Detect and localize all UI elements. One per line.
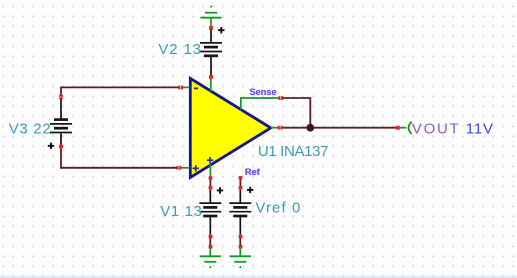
ground GND2 (under V1) bbox=[200, 248, 221, 268]
node: junction dot on output net bbox=[306, 124, 314, 132]
battery Vref (0V) bbox=[229, 187, 253, 235]
node: V3 top pin square bbox=[59, 95, 63, 97]
wire: sense net to output junction bbox=[283, 98, 311, 126]
wire: bottom supply pin to V1 bbox=[209, 180, 211, 187]
svg-text:V3 22: V3 22 bbox=[9, 120, 52, 137]
node: V1 top pin square bbox=[209, 186, 213, 189]
pin: top supply (green) bbox=[210, 79, 212, 92]
wire: V3 bottom to non-inverting input bbox=[61, 149, 177, 168]
node: V3 bottom pin square bbox=[59, 145, 63, 149]
node: opamp V- pin / battery pin square bbox=[209, 75, 213, 79]
node: bottom supply pin square bbox=[209, 176, 213, 179]
wire: Vref to GND3 bbox=[239, 238, 241, 245]
node: output pin square bbox=[278, 126, 280, 130]
pin: Sense (green, bent) bbox=[241, 98, 279, 110]
opamp minus input marker bbox=[194, 88, 198, 90]
svg-text:V1 13: V1 13 bbox=[160, 203, 202, 220]
battery V1 (13V) bbox=[199, 187, 223, 235]
pin: bottom supply (green) bbox=[209, 164, 211, 177]
pin: inverting input (green) bbox=[183, 86, 190, 88]
node: Ref pin square bbox=[239, 176, 243, 179]
wire: output net to VOUT bbox=[282, 127, 396, 129]
svg-text:Sense: Sense bbox=[249, 87, 276, 97]
wire: V1 to GND2 bbox=[209, 238, 211, 245]
svg-text:VOUT: VOUT bbox=[412, 121, 460, 138]
node: GND2 pin square bbox=[209, 245, 213, 249]
node: non-inverting input pin squares bbox=[177, 166, 179, 170]
battery V2 (13V) bbox=[200, 27, 225, 75]
battery V3 (22V) bbox=[48, 99, 72, 149]
svg-text:Vref 0: Vref 0 bbox=[255, 199, 301, 216]
svg-text:U1 INA137: U1 INA137 bbox=[258, 143, 328, 160]
wire: V3 top to inverting input bbox=[61, 87, 179, 95]
node: sense pin square bbox=[279, 96, 281, 100]
svg-text:V2 13: V2 13 bbox=[158, 41, 201, 58]
ground GND1 (top, inverted) bbox=[200, 6, 221, 28]
ground GND3 (under Vref) bbox=[230, 248, 251, 268]
pin: non-inverting input (green) bbox=[181, 167, 190, 169]
node: V1 bottom pin square bbox=[209, 235, 213, 239]
node: inverting input pin squares bbox=[178, 86, 180, 90]
wire: Ref pin to Vref bbox=[239, 180, 241, 187]
pin: output (green) bbox=[271, 127, 278, 129]
opamp supply plus marker bbox=[207, 157, 213, 163]
bottom window fade bbox=[0, 272, 517, 278]
svg-text:11V: 11V bbox=[466, 121, 494, 138]
terminal VOUT (green lead and bracket) bbox=[400, 122, 412, 134]
node: V2 + terminal pin square bbox=[209, 26, 213, 30]
svg-text:Ref: Ref bbox=[245, 167, 261, 177]
opamp plus input marker bbox=[193, 165, 199, 171]
node: GND3 pin square bbox=[239, 245, 243, 249]
op-amp U1 INA137 (triangle body) bbox=[190, 78, 270, 177]
node: Vref bottom pin square bbox=[239, 235, 243, 239]
node: Vref top pin square bbox=[239, 186, 243, 189]
node: VOUT terminal pin square bbox=[396, 126, 400, 130]
